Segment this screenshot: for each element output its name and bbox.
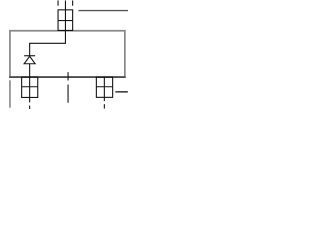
pin 1 lead fold line [22, 86, 38, 88]
pin 1 lead pad (bottom left) [22, 77, 38, 97]
diode D1 triangle [24, 56, 35, 64]
pin 3 hidden edge dash left [57, 0, 59, 5]
pin 3 lead pad (top) [58, 10, 73, 31]
pin 2 centerline dash [103, 104, 105, 108]
pin 2 centerline [103, 77, 105, 101]
diode D1 cathode bar [24, 55, 35, 57]
projection line from body left edge [9, 80, 11, 107]
pin 2 lead fold line [96, 86, 112, 88]
pin 3 hidden edge dash right [72, 0, 74, 5]
package centerline dash lower [67, 85, 69, 103]
package centerline dash upper [67, 72, 69, 80]
pin 3 lead fold line [58, 20, 73, 22]
leader line top right [78, 10, 128, 12]
pin 1 centerline dash [29, 106, 31, 110]
leader line bottom right [115, 91, 128, 93]
wire from diode anode to pin 1 [29, 64, 31, 103]
package bottom edge [9, 76, 125, 78]
package body outline U1 (SOT-23) [10, 31, 125, 77]
wire from pin 3 to diode cathode [30, 0, 66, 55]
pin 2 lead pad (bottom right) [96, 77, 112, 97]
